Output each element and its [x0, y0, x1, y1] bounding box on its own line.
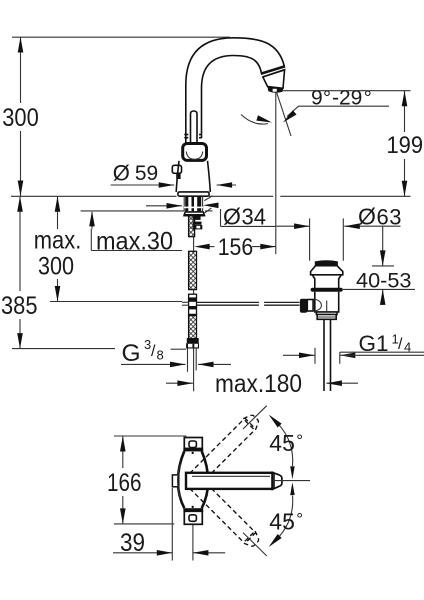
svg-text:45: 45: [269, 430, 295, 456]
spout tip aerator: [263, 70, 285, 89]
dim 39: [171, 488, 173, 561]
horizontal rod to drain: [197, 302, 300, 305]
center dots: [192, 452, 194, 454]
wire: countertop line: [11, 195, 177, 197]
braided hose segment 3: [189, 316, 197, 340]
svg-text:59: 59: [135, 161, 158, 185]
inner arc of handle: [186, 152, 202, 160]
faucet spout inner curve: [202, 56, 262, 139]
drain flange: [311, 266, 343, 275]
hose tails: [187, 349, 189, 372]
plan top square: [184, 438, 202, 451]
shank fitting steps: [193, 216, 201, 220]
dim max.180: [166, 382, 193, 384]
dashed spout lower 45: [189, 477, 262, 550]
base plate: [178, 192, 209, 196]
left tab: [172, 475, 178, 487]
wire: extension line for 385: [12, 348, 115, 350]
svg-text:max.30: max.30: [96, 228, 173, 256]
svg-text:156: 156: [218, 234, 254, 261]
wire: counter bottom line: [81, 210, 184, 212]
cross fitting (pop-up pivot): [189, 294, 197, 314]
rod between: [193, 290, 195, 298]
braided hose segment 1: [189, 216, 195, 237]
svg-text:8: 8: [157, 348, 164, 363]
G3/8 end block: [187, 338, 199, 343]
svg-text:°: °: [296, 509, 303, 528]
dim diam34: [146, 205, 182, 207]
wire: leader from G 3/8 to hoses: [171, 348, 187, 350]
solid spout beam: [186, 473, 272, 489]
dim max.300 vertical: [57, 196, 59, 229]
svg-text:max.180: max.180: [215, 370, 302, 398]
rod connector block: [300, 299, 307, 313]
45deg arc lower: [271, 496, 293, 545]
svg-text:300: 300: [38, 253, 74, 281]
svg-text:166: 166: [107, 469, 142, 497]
45deg leader upper: [243, 406, 267, 429]
spout cap: [272, 472, 282, 489]
svg-text:199: 199: [387, 132, 424, 159]
drain plug top: [315, 260, 338, 265]
center line: [326, 301, 328, 312]
wire: diam63 extension lines: [309, 218, 311, 260]
plan bottom square: [183, 508, 203, 512]
drain neck: [312, 275, 341, 288]
dim 166: [114, 435, 187, 437]
svg-text:Ø: Ø: [358, 204, 376, 230]
dim 385 vertical: [19, 196, 21, 291]
lever rod: [191, 111, 198, 144]
plan body barrel: [178, 451, 184, 508]
svg-text:max.: max.: [34, 227, 82, 255]
braided hose segment 2: [189, 251, 197, 289]
dim 199: [283, 90, 411, 92]
svg-text:/: /: [151, 343, 156, 360]
faucet spout outer curve: [186, 38, 285, 143]
spout end band: [261, 66, 285, 74]
dashed spout upper 45: [189, 412, 262, 485]
pop-up rod tail: [193, 349, 195, 392]
wire: top extension line at spout max height: [12, 36, 230, 38]
drain step joint: [316, 312, 337, 319]
rod between: [193, 237, 195, 252]
tailpipe: [323, 319, 325, 391]
svg-text:385: 385: [1, 292, 38, 320]
O-ring: [311, 288, 343, 292]
svg-text:G: G: [122, 340, 141, 367]
dim G1 1/4 arrows: [283, 354, 315, 356]
wire: angled line 29deg: [277, 92, 292, 136]
ball joint arc: [314, 299, 322, 311]
pivot ring: [178, 464, 181, 498]
svg-text:34: 34: [242, 203, 267, 229]
wire: G1 1/4 extension lines: [314, 348, 316, 364]
45deg leader lower: [243, 533, 267, 556]
svg-text:/: /: [398, 336, 403, 353]
escutcheon section bars: [185, 196, 188, 211]
svg-text:45: 45: [269, 509, 295, 535]
dim 300 vertical: [20, 37, 22, 103]
45deg arc upper: [271, 417, 293, 467]
drain body: [315, 292, 339, 312]
svg-text:300: 300: [2, 104, 39, 132]
dim hose width arrows: [121, 363, 186, 365]
lever collar ticks: [184, 134, 188, 136]
handle housing: [183, 144, 207, 161]
arc arrow swivel: [241, 115, 268, 125]
wire: extension max.300 at pivot: [50, 301, 182, 303]
escutcheon skirt: [184, 212, 205, 216]
svg-text:°: °: [296, 431, 303, 450]
dim diam63 arrows: [277, 225, 310, 227]
dim 40-53: [372, 265, 394, 267]
pop-up knob: [172, 165, 181, 173]
svg-text:Ø: Ø: [113, 161, 130, 186]
svg-text:39: 39: [120, 529, 145, 557]
dim 156: [210, 246, 215, 248]
dim max.30 leader: [91, 212, 93, 229]
wire: stream vertical line from spout tip: [275, 93, 277, 255]
svg-text:Ø: Ø: [223, 203, 241, 229]
body trapezoid sides: [176, 161, 210, 192]
